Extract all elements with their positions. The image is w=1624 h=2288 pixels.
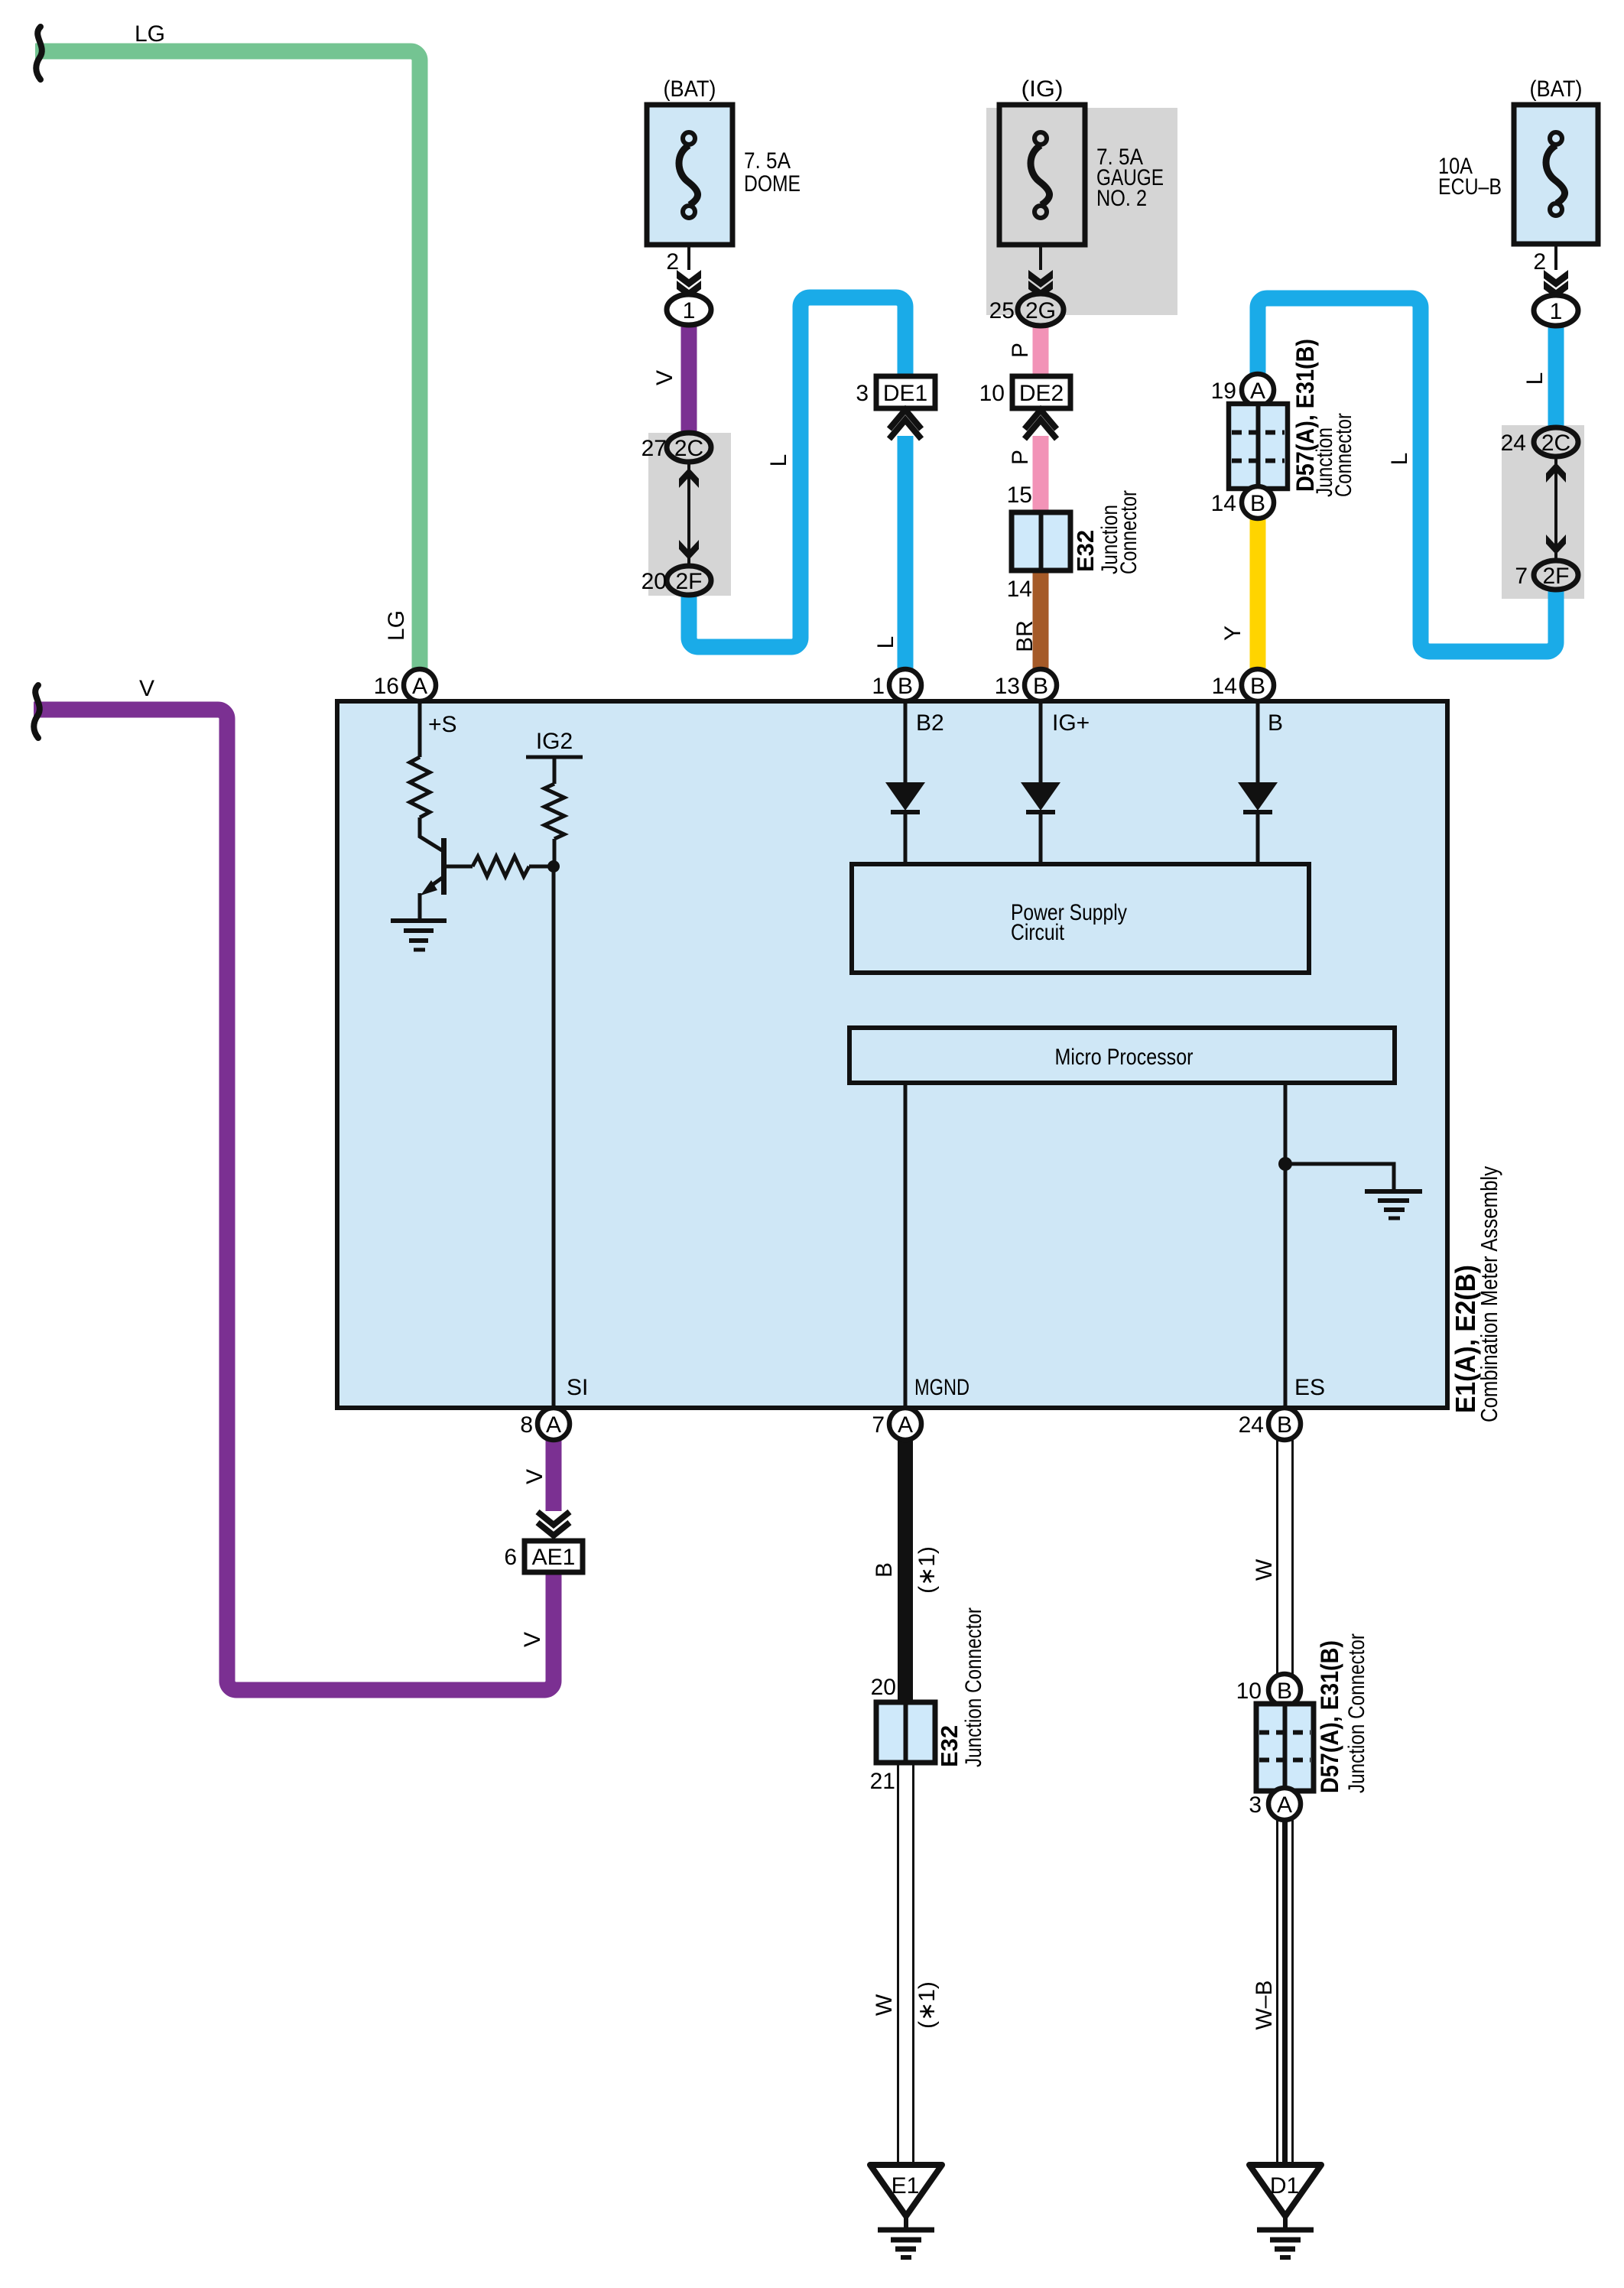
fuse 10A ECU-B bbox=[1514, 105, 1598, 244]
svg-text:Connector: Connector bbox=[1116, 490, 1142, 574]
wire R2 to node to SI pin bbox=[554, 839, 554, 1406]
svg-text:20: 20 bbox=[641, 569, 667, 594]
svg-text:7. 5A: 7. 5A bbox=[744, 148, 791, 174]
junction connector E32 (bottom) bbox=[876, 1702, 935, 1763]
svg-text:D1: D1 bbox=[1270, 2173, 1299, 2199]
svg-text:20: 20 bbox=[871, 1675, 896, 1700]
arrow chevrons into AE1 bbox=[538, 1512, 570, 1536]
wire W white E32 to ground E1 bbox=[898, 1761, 914, 2165]
svg-text:MGND: MGND bbox=[914, 1375, 970, 1400]
svg-text:24: 24 bbox=[1239, 1412, 1264, 1438]
continuation brace V bbox=[34, 685, 40, 738]
gray panel ECU-B connector block 2C/2F bbox=[1502, 425, 1584, 599]
fuse 7.5A GAUGE NO.2 bbox=[999, 105, 1085, 245]
pin 14(B) bbox=[1242, 669, 1274, 701]
wire V purple loop from page-left to AE1 bbox=[34, 710, 554, 1690]
svg-text:A: A bbox=[412, 674, 427, 699]
wire B black pin 7(A) to E32 bbox=[898, 1440, 913, 1705]
svg-text:W: W bbox=[1252, 1558, 1277, 1581]
wire base bbox=[447, 865, 473, 869]
svg-text:V: V bbox=[652, 370, 677, 385]
svg-text:P: P bbox=[1008, 343, 1033, 358]
connector 2C (ECU-B) bbox=[1534, 427, 1578, 457]
arrow into connector 1 bbox=[677, 270, 701, 288]
diode D-B bbox=[1256, 704, 1260, 864]
wire V purple pin 8(A) to chevron bbox=[546, 1440, 562, 1511]
svg-text:Circuit: Circuit bbox=[1011, 920, 1065, 945]
connector AE1 bbox=[525, 1541, 583, 1572]
svg-text:B: B bbox=[872, 1562, 897, 1578]
svg-text:2G: 2G bbox=[1025, 298, 1056, 323]
resistor R1 +S bbox=[410, 757, 430, 817]
pin 13(B) bbox=[1025, 669, 1057, 701]
wire to internal ground bbox=[1285, 1164, 1394, 1190]
svg-text:1: 1 bbox=[872, 674, 885, 699]
svg-text:2C: 2C bbox=[674, 436, 703, 461]
connector 2C (DOME) bbox=[667, 433, 711, 462]
micro processor box bbox=[849, 1028, 1395, 1083]
resistor R2 IG2 bbox=[544, 784, 564, 839]
svg-text:6: 6 bbox=[504, 1545, 517, 1570]
connector 2G bbox=[1018, 294, 1064, 326]
svg-text:13: 13 bbox=[995, 674, 1020, 699]
transistor Q1 bar bbox=[441, 838, 447, 895]
svg-text:10: 10 bbox=[979, 381, 1005, 406]
svg-text:W: W bbox=[872, 1994, 897, 2016]
pin 16(A) bbox=[404, 669, 436, 701]
svg-text:V: V bbox=[139, 676, 154, 701]
svg-text:B: B bbox=[1268, 710, 1283, 736]
wire fuse DOME pin 2 bbox=[687, 245, 690, 270]
svg-text:B: B bbox=[1250, 674, 1265, 699]
svg-text:+S: +S bbox=[428, 712, 457, 737]
wire W-B D57 3(A) to ground D1 bbox=[1278, 1818, 1293, 2165]
pin 8(A) bbox=[538, 1408, 570, 1440]
svg-text:14: 14 bbox=[1212, 674, 1237, 699]
wire P pink DE2 to E32 bbox=[1033, 436, 1049, 514]
connector 1 (DOME) bbox=[667, 294, 711, 325]
svg-text:SI: SI bbox=[567, 1375, 588, 1400]
wire LG green from page-left to pin 16(A) bbox=[35, 51, 420, 671]
wire fuse ECU-B pin 2 bbox=[1554, 244, 1557, 270]
svg-text:BR: BR bbox=[1012, 620, 1038, 652]
ground under transistor bbox=[391, 918, 447, 923]
wire L blue ECU-B connector 1 to 2C bbox=[1548, 325, 1564, 430]
junction connector E32 (top) bbox=[1012, 512, 1070, 570]
svg-text:B: B bbox=[1033, 674, 1048, 699]
svg-text:A: A bbox=[1250, 379, 1265, 404]
arrow into connector 1 (ECU-B) bbox=[1544, 270, 1568, 288]
IG2 rail bar bbox=[526, 756, 583, 759]
svg-text:15: 15 bbox=[1007, 483, 1032, 508]
wire ES bbox=[1284, 1083, 1288, 1406]
gray panel GAUGE fuse block bbox=[986, 108, 1177, 315]
svg-text:Micro Processor: Micro Processor bbox=[1055, 1045, 1194, 1070]
svg-text:3: 3 bbox=[1249, 1792, 1262, 1818]
double arrow 2C-2F bbox=[687, 463, 690, 564]
svg-text:7: 7 bbox=[1515, 564, 1528, 589]
emitter with arrow bbox=[428, 876, 444, 888]
pin 24(B) bbox=[1268, 1408, 1301, 1440]
svg-text:AE1: AE1 bbox=[532, 1545, 576, 1570]
connector 2F (ECU-B) bbox=[1534, 561, 1578, 590]
wire Y yellow D57 14(B) to pin 14(B) bbox=[1250, 517, 1266, 671]
resistor R3 base bbox=[473, 856, 529, 876]
svg-text:LG: LG bbox=[135, 21, 165, 47]
junction connector D57(A),E31(B) bottom bbox=[1268, 1674, 1301, 1706]
svg-text:LG: LG bbox=[384, 610, 409, 641]
svg-text:E1: E1 bbox=[892, 2173, 920, 2199]
combination meter assembly box bbox=[337, 701, 1447, 1408]
svg-text:B: B bbox=[1250, 491, 1265, 516]
wire BR brown E32 to pin 13(B) bbox=[1033, 569, 1049, 671]
svg-text:L: L bbox=[766, 454, 791, 467]
pin 1(B) bbox=[889, 669, 921, 701]
svg-text:D57(A), E31(B): D57(A), E31(B) bbox=[1316, 1640, 1343, 1793]
power supply circuit box bbox=[852, 864, 1309, 973]
svg-text:IG+: IG+ bbox=[1052, 710, 1090, 736]
svg-text:P: P bbox=[1008, 450, 1033, 465]
svg-text:1: 1 bbox=[683, 298, 696, 323]
pin 7(A) bbox=[889, 1408, 921, 1440]
svg-text:B2: B2 bbox=[916, 710, 944, 736]
svg-text:V: V bbox=[520, 1632, 545, 1647]
wire emitter to ground bbox=[418, 893, 422, 919]
node ES junction dot bbox=[1278, 1157, 1292, 1171]
svg-text:16: 16 bbox=[374, 674, 399, 699]
svg-text:A: A bbox=[898, 1412, 913, 1438]
svg-text:2F: 2F bbox=[675, 569, 702, 594]
svg-text:25: 25 bbox=[989, 298, 1015, 323]
svg-text:8: 8 bbox=[520, 1412, 533, 1438]
svg-text:E32: E32 bbox=[936, 1725, 963, 1767]
svg-text:ECU–B: ECU–B bbox=[1438, 174, 1502, 200]
arrow into connector 2G bbox=[1028, 270, 1053, 288]
svg-text:27: 27 bbox=[641, 436, 667, 461]
continuation brace LG bbox=[36, 27, 42, 80]
connector DE1 bbox=[876, 376, 935, 408]
svg-text:Junction Connector: Junction Connector bbox=[961, 1607, 986, 1767]
svg-text:14: 14 bbox=[1007, 577, 1032, 602]
wire L blue D57 19(A) loop to ECU-B 2F bbox=[1258, 298, 1556, 652]
svg-text:(∗1): (∗1) bbox=[914, 1546, 940, 1594]
svg-text:(IG): (IG) bbox=[1021, 76, 1064, 102]
svg-text:7: 7 bbox=[872, 1412, 885, 1438]
svg-text:Combination Meter Assembly: Combination Meter Assembly bbox=[1476, 1166, 1502, 1422]
svg-text:NO. 2: NO. 2 bbox=[1096, 186, 1147, 211]
diode D-IG bbox=[1039, 704, 1043, 864]
wire MGND bbox=[904, 1083, 908, 1406]
svg-text:14: 14 bbox=[1211, 491, 1236, 516]
wire base to node bbox=[529, 865, 554, 869]
svg-text:19: 19 bbox=[1211, 379, 1236, 404]
svg-text:V: V bbox=[522, 1469, 547, 1484]
svg-text:Junction Connector: Junction Connector bbox=[1344, 1633, 1369, 1793]
wire W white pin 24(B) to D57 10(B) bbox=[1278, 1440, 1293, 1676]
ground E1 bbox=[870, 2165, 942, 2216]
svg-text:Y: Y bbox=[1220, 626, 1246, 641]
double arrow 2C-2F (ECU-B) bbox=[1554, 458, 1557, 559]
svg-text:24: 24 bbox=[1501, 431, 1526, 456]
wire fuse GAUGE pin bbox=[1039, 245, 1042, 270]
svg-text:L: L bbox=[873, 636, 898, 649]
wire V purple DOME connector 1 to 2C bbox=[681, 324, 697, 434]
svg-text:B: B bbox=[1277, 1412, 1292, 1438]
gray panel DOME connector block 2C/2F bbox=[648, 433, 731, 596]
svg-text:B: B bbox=[1277, 1679, 1292, 1704]
internal ground symbol bbox=[1365, 1189, 1422, 1194]
junction connector D57(A),E31(B) top bbox=[1242, 374, 1274, 406]
svg-text:A: A bbox=[546, 1412, 561, 1438]
ground D1 bbox=[1249, 2165, 1321, 2216]
wire L blue DOME 2F to DE1 bbox=[689, 297, 905, 647]
svg-text:A: A bbox=[1277, 1792, 1292, 1818]
svg-text:Connector: Connector bbox=[1331, 413, 1356, 497]
svg-text:1: 1 bbox=[1550, 299, 1563, 324]
svg-text:DE2: DE2 bbox=[1019, 381, 1064, 406]
wire +S internal bbox=[418, 704, 422, 757]
svg-text:ES: ES bbox=[1294, 1375, 1325, 1400]
svg-text:L: L bbox=[1522, 372, 1548, 385]
svg-text:10: 10 bbox=[1236, 1679, 1262, 1704]
svg-text:DOME: DOME bbox=[744, 171, 801, 197]
connector 1 (ECU-B) bbox=[1534, 295, 1578, 326]
fuse 7.5A DOME bbox=[647, 105, 732, 245]
svg-text:W–B: W–B bbox=[1252, 1980, 1277, 2030]
svg-text:(BAT): (BAT) bbox=[1530, 76, 1583, 102]
connector 2F (DOME) bbox=[667, 566, 711, 595]
svg-text:3: 3 bbox=[856, 381, 869, 406]
svg-text:2F: 2F bbox=[1542, 564, 1569, 589]
svg-text:E32: E32 bbox=[1072, 530, 1099, 572]
connector DE2 bbox=[1012, 376, 1070, 408]
diode D-B2 bbox=[904, 704, 908, 864]
node junction dot bbox=[547, 860, 560, 873]
svg-text:B: B bbox=[898, 674, 913, 699]
wire L blue DE1 to pin 1(B) bbox=[898, 436, 914, 671]
svg-text:DE1: DE1 bbox=[883, 381, 927, 406]
svg-text:(∗1): (∗1) bbox=[914, 1981, 940, 2029]
wire IG2 stem bbox=[553, 757, 557, 784]
svg-text:L: L bbox=[1387, 453, 1412, 466]
svg-text:IG2: IG2 bbox=[536, 729, 573, 754]
wire P pink 2G to DE2 bbox=[1033, 324, 1049, 379]
svg-text:(BAT): (BAT) bbox=[664, 76, 716, 102]
svg-text:21: 21 bbox=[870, 1769, 895, 1794]
wire collector bbox=[420, 817, 442, 850]
svg-text:2C: 2C bbox=[1541, 431, 1570, 456]
